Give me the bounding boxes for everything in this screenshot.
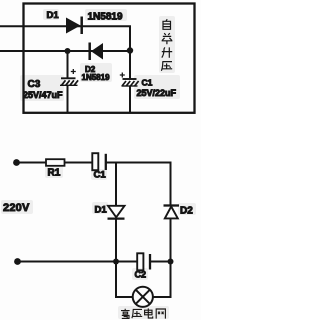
wire below D2 to bottom rail bbox=[170, 218, 172, 261]
wire R1 to C1 bbox=[65, 162, 93, 164]
wire below D1 to bottom rail bbox=[115, 220, 117, 262]
wire vertical left branch x=67.5 (wire2 down to C3) bbox=[67, 51, 69, 78]
capacitor C1 (series film cap) bbox=[92, 153, 106, 170]
junction dot at (130,50.5) bbox=[127, 47, 133, 53]
note 电 (caption) bbox=[145, 308, 153, 318]
wire top row (D1 row) from left edge into box bbox=[0, 25, 131, 27]
wire left drop to lamp row bbox=[116, 262, 133, 298]
junction dot at (116,261.5) bbox=[113, 259, 119, 265]
wire C1 to right corner bbox=[106, 162, 172, 164]
junction dot at (170.5,261.5) bbox=[168, 259, 174, 265]
note 压 (caption) bbox=[132, 309, 142, 318]
wire below C1 to box bottom bbox=[129, 86, 131, 113]
wire below C3 to box bottom bbox=[67, 85, 69, 112]
svg-text:D1: D1 bbox=[47, 10, 60, 21]
note 网 (caption) bbox=[156, 309, 165, 319]
lamp (high voltage grid load) bbox=[133, 287, 153, 307]
note 高 (caption 高压电网) bbox=[121, 309, 130, 319]
bottom rail wire from C2 to right bbox=[150, 261, 172, 263]
note 自 (vertical caption 自举升压) bbox=[163, 19, 171, 29]
bottom rail wire to C2 bbox=[18, 261, 138, 263]
svg-text:D1: D1 bbox=[95, 205, 108, 216]
wire right side down from corner bbox=[170, 163, 172, 206]
diode D2 (outline, pointing up) bbox=[164, 206, 180, 219]
terminal dot lower 220V bbox=[14, 258, 21, 265]
capacitor C3 (polarized 25V/47uF) bbox=[60, 69, 78, 85]
note 举 bbox=[162, 33, 173, 44]
wire vertical right branch x=130 (wire1 corner down through dot to C1) bbox=[129, 26, 131, 78]
svg-text:C2: C2 bbox=[135, 270, 147, 280]
note 升 bbox=[162, 47, 172, 57]
resistor R1 bbox=[46, 159, 65, 166]
svg-text:R1: R1 bbox=[48, 168, 61, 179]
capacitor C2 bbox=[137, 253, 150, 270]
scan smudge backgrounds bbox=[1, 9, 196, 319]
svg-text:1N5819: 1N5819 bbox=[88, 12, 123, 23]
diode D2 (1N5819, filled, pointing left) bbox=[90, 43, 103, 61]
svg-text:220V: 220V bbox=[3, 202, 30, 214]
svg-text:C3: C3 bbox=[28, 79, 41, 90]
terminal dot upper 220V bbox=[13, 159, 20, 166]
diode D1 (1N5819, filled, pointing right) bbox=[66, 17, 82, 35]
diode D1 (outline, pointing down) bbox=[108, 206, 125, 219]
svg-text:C1: C1 bbox=[94, 170, 107, 181]
svg-text:C1: C1 bbox=[142, 78, 153, 88]
wire right drop to lamp row bbox=[153, 262, 171, 298]
box around bootstrap boost circuit bbox=[24, 4, 195, 113]
wire from terminal to R1 bbox=[17, 162, 47, 164]
note 压 bbox=[161, 62, 172, 71]
svg-text:1N5819: 1N5819 bbox=[82, 73, 111, 82]
capacitor C1 (polarized 25V/22uF) bbox=[120, 73, 139, 87]
svg-text:25V/47uF: 25V/47uF bbox=[23, 90, 63, 100]
svg-text:25V/22uF: 25V/22uF bbox=[137, 88, 177, 98]
wire second row (D2 row) from left edge into box bbox=[0, 50, 130, 52]
svg-text:D2: D2 bbox=[180, 206, 193, 217]
wire D1 branch down bbox=[115, 163, 117, 206]
junction dot at (67.5,51) bbox=[65, 48, 71, 54]
